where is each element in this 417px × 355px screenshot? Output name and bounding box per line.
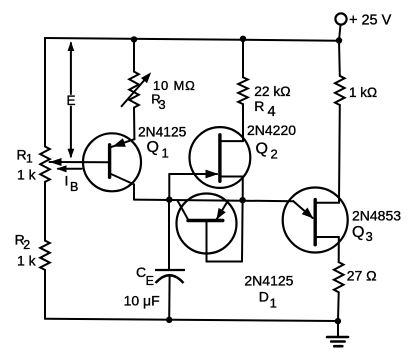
svg-text:2N4853: 2N4853 [352,208,401,224]
svg-text:27 Ω: 27 Ω [347,268,377,284]
svg-text:D: D [259,289,269,305]
svg-text:1 k: 1 k [17,167,37,183]
svg-text:E: E [67,93,76,108]
svg-text:2: 2 [23,238,30,252]
svg-text:R: R [254,98,264,114]
svg-text:4: 4 [268,104,276,120]
svg-text:3: 3 [158,97,165,112]
svg-text:Q: Q [352,224,364,241]
svg-text:Q: Q [147,139,159,156]
svg-text:C: C [136,264,146,280]
svg-text:1: 1 [26,152,33,166]
svg-text:3: 3 [366,229,373,244]
svg-text:22 kΩ: 22 kΩ [254,84,290,99]
svg-text:2: 2 [271,147,278,162]
svg-text:10 μF: 10 μF [124,293,160,309]
svg-text:1: 1 [162,146,169,161]
svg-text:E: E [146,274,154,288]
svg-text:Q: Q [256,141,268,158]
svg-text:1 kΩ: 1 kΩ [349,85,377,100]
svg-text:1 k: 1 k [17,253,37,269]
svg-text:2N4125: 2N4125 [244,273,293,289]
svg-text:2N4125: 2N4125 [138,125,187,140]
svg-text:B: B [70,180,78,194]
svg-text:1: 1 [270,296,277,311]
svg-text:I: I [65,173,69,189]
svg-text:+ 25 V: + 25 V [349,13,392,29]
svg-text:2N4220: 2N4220 [247,122,296,138]
